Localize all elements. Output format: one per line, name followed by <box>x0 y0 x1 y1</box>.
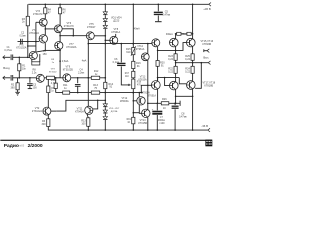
svg-text:КТ818Б: КТ818Б <box>204 85 213 88</box>
svg-text:2,2мк: 2,2мк <box>78 72 85 75</box>
transistor VT16 <box>187 38 196 47</box>
wire VT5 emitter <box>88 40 90 107</box>
svg-text:КТ361Г: КТ361Г <box>87 26 96 29</box>
svg-text:КТ3107К: КТ3107К <box>33 13 43 16</box>
caption separator <box>0 140 212 141</box>
resistor R4 <box>44 8 47 14</box>
label R6 <box>62 9 66 15</box>
label current 4mA <box>82 60 87 63</box>
wire to VT5 base <box>60 35 86 37</box>
capacitor C6 <box>117 63 125 65</box>
label VT14 <box>138 119 147 125</box>
label R25 <box>185 55 190 61</box>
wire bias line y112 <box>133 112 139 114</box>
svg-text:КТ601А: КТ601А <box>148 95 157 98</box>
wire VT3-VT6 link <box>45 28 54 30</box>
svg-text:4мА: 4мА <box>82 60 87 63</box>
svg-text:×100: ×100 <box>159 122 165 125</box>
transistor VT11a <box>85 106 93 114</box>
svg-text:КТ3102: КТ3102 <box>49 72 57 74</box>
wire line y103 end bar <box>179 101 181 106</box>
svg-text:КП903А: КП903А <box>120 100 129 103</box>
svg-text:0,5мк: 0,5мк <box>19 34 26 37</box>
transistor VT6 <box>54 25 62 33</box>
resistor R20 <box>156 61 159 67</box>
wire base bus x35.6 <box>28 22 36 52</box>
wire R16-R17 <box>132 69 134 72</box>
svg-text:Вход: Вход <box>3 66 10 70</box>
svg-text:R18: R18 <box>137 82 142 84</box>
label C8 <box>179 113 188 119</box>
wire R6 top <box>59 4 61 8</box>
label R24 <box>185 67 190 73</box>
transistor VT10 <box>152 39 160 47</box>
svg-text:КТ961А: КТ961А <box>111 31 120 34</box>
wire drive line y77.3 <box>158 77 180 79</box>
label VT13 <box>138 77 147 82</box>
wire R10 col <box>55 78 57 93</box>
svg-text:0,47мк: 0,47мк <box>179 116 188 119</box>
wire left drop x27.5 <box>27 4 29 58</box>
wire right bus x192 <box>192 4 194 38</box>
svg-text:Д223: Д223 <box>113 20 119 23</box>
svg-text:300: 300 <box>42 123 47 126</box>
label output <box>203 56 209 60</box>
wire C5 top <box>157 4 159 11</box>
svg-text:КТ3102А: КТ3102А <box>16 47 27 50</box>
label VT15 VT16 <box>200 40 213 46</box>
diode VD5 <box>103 104 107 107</box>
label R22 <box>168 67 173 73</box>
svg-text:0,47мк: 0,47мк <box>162 13 171 16</box>
label R26 <box>162 98 167 110</box>
label FU2 <box>180 33 187 36</box>
trimmer R18 <box>132 79 135 89</box>
diode VD3 <box>103 25 107 28</box>
wire R20 down <box>157 66 159 81</box>
resistor R11 <box>63 91 70 94</box>
wire VT4 loop right <box>39 54 41 62</box>
capacitor C1 <box>11 55 13 61</box>
resistor R23 <box>174 54 177 61</box>
label R11 <box>63 84 68 90</box>
resistor R3 <box>47 119 50 127</box>
svg-text:910: 910 <box>126 51 131 54</box>
wire fb bus <box>56 92 143 94</box>
svg-text:КТ315Б: КТ315Б <box>138 122 147 125</box>
resistor R17 <box>132 71 135 78</box>
wire R15-R16 <box>132 55 134 62</box>
transistor VT4b <box>36 74 44 82</box>
svg-text:300мА: 300мА <box>180 33 187 36</box>
wire VT4 loop left <box>31 59 33 62</box>
terminal +36V <box>209 3 211 7</box>
label -36V <box>201 124 208 128</box>
label VT6 <box>64 22 75 28</box>
label R7 <box>43 50 48 56</box>
resistor R19 <box>132 117 135 124</box>
diode VD1 <box>103 12 107 15</box>
wire trimmer arrow <box>129 84 131 86</box>
transistor VT4 <box>29 51 37 59</box>
label R12top <box>94 70 99 76</box>
diode VD6 <box>103 110 107 113</box>
diode VD7 <box>103 117 107 120</box>
label VT5 <box>87 23 96 29</box>
label R18 <box>137 82 142 87</box>
capacitor C1b <box>11 75 13 81</box>
transistor VT3 <box>39 18 47 26</box>
wire C5 bottom <box>155 16 162 22</box>
transistor VT18 <box>187 81 196 90</box>
transistor VT15 <box>170 38 179 47</box>
wire VD6-VD7 <box>104 114 106 117</box>
caption text <box>4 143 43 149</box>
svg-text:2/2000: 2/2000 <box>28 143 43 149</box>
wire R25 out <box>192 60 194 66</box>
wire VT11 emitter <box>147 60 149 104</box>
transistor VT5 <box>86 32 94 40</box>
wire VT2 step <box>56 100 105 112</box>
wire out drive y50 <box>158 49 176 51</box>
label R15 <box>126 48 131 54</box>
label VT9 <box>63 66 74 72</box>
wire VT18 base feed <box>179 78 186 84</box>
svg-text:КТ815А: КТ815А <box>142 92 151 95</box>
svg-text:+36 В: +36 В <box>203 7 211 11</box>
wire VT12 source <box>139 105 142 114</box>
terminal input bottom <box>3 76 11 80</box>
svg-text:100: 100 <box>33 86 38 89</box>
wire diode col top <box>104 4 106 12</box>
wire VT15 emitter S-bend <box>175 43 187 52</box>
wire VT3 emitter <box>45 26 47 35</box>
resistor R16 <box>132 61 135 68</box>
svg-text:VT13: VT13 <box>140 77 146 79</box>
svg-text:КТ3102А: КТ3102А <box>66 46 77 49</box>
svg-text:1к: 1к <box>52 62 54 64</box>
label R8 <box>32 69 37 75</box>
logo stamp <box>205 140 212 147</box>
terminal output pin2 <box>204 49 210 53</box>
label current 2.5mA <box>62 60 69 63</box>
wire R23 out <box>175 50 177 66</box>
wire VT11a emitter <box>87 114 88 118</box>
label R13b <box>81 120 86 126</box>
wire VD7 down <box>104 120 106 130</box>
svg-text:-36 В: -36 В <box>201 124 208 128</box>
svg-text:Вых.: Вых. <box>203 56 209 60</box>
wire R6 to VT6 <box>59 14 61 25</box>
wire VT15 collector <box>175 34 177 39</box>
wire line y103 <box>148 103 180 105</box>
terminal output <box>208 61 210 65</box>
label R13 <box>93 84 98 90</box>
wire VT14 emitter <box>147 117 149 130</box>
svg-text:КТ940А: КТ940А <box>75 111 84 114</box>
transistor VT17 <box>170 81 179 90</box>
label R9 <box>51 88 55 93</box>
label C6 <box>113 58 120 64</box>
label R1 <box>22 65 27 71</box>
wire VD1-VD2 <box>104 15 106 18</box>
wire bus y43.3 <box>88 43 152 45</box>
svg-text:VD5...VD7: VD5...VD7 <box>109 108 120 110</box>
wire R24 down <box>192 73 194 81</box>
svg-text:40мА: 40мА <box>134 28 140 31</box>
wire fuse line <box>175 33 193 35</box>
label C4 <box>78 69 85 75</box>
label KT601 <box>148 95 157 98</box>
resistor R2 <box>16 78 19 90</box>
wire VT11 collector <box>147 44 149 54</box>
label VT12 <box>120 97 129 103</box>
wire R9-VT2 <box>47 93 49 108</box>
svg-text:КТ3102А: КТ3102А <box>32 110 43 113</box>
ground R2 <box>15 90 20 95</box>
terminal -36V <box>208 128 210 132</box>
label VD5-VD7 <box>109 108 120 113</box>
label R2 <box>11 84 16 90</box>
resistor R5 inline <box>47 76 55 79</box>
label VT1 <box>16 44 27 50</box>
resistor R13b <box>87 118 90 130</box>
wire VT8 collector up <box>115 34 117 37</box>
label VT17 VT18 <box>202 82 215 88</box>
capacitor C7 <box>152 103 162 130</box>
wire VT11a base <box>93 100 98 109</box>
capacitor C5 <box>154 12 163 14</box>
label VT2 <box>32 107 43 113</box>
label C5 <box>162 11 171 17</box>
label C7 <box>158 116 165 125</box>
wire R19 top <box>132 113 134 118</box>
label R19 <box>127 119 132 124</box>
wire R22 down <box>175 73 177 81</box>
wire VT5 collector right <box>94 35 106 37</box>
resistor R25 <box>191 54 194 61</box>
resistor R3a <box>26 16 29 26</box>
capacitor C3 <box>27 78 33 89</box>
svg-text:150: 150 <box>43 53 48 56</box>
wire R17 down <box>133 89 135 114</box>
label R3 <box>42 120 47 126</box>
svg-text:0,47мк: 0,47мк <box>4 49 12 52</box>
svg-text:360: 360 <box>11 87 16 90</box>
transistor VT11 <box>141 53 149 61</box>
transistor VT12 mosfet <box>137 97 145 105</box>
resistor R10 <box>54 83 57 88</box>
transistor VT9 <box>63 74 71 82</box>
wire line y77.5 mid <box>44 77 63 79</box>
transistor VT13 <box>151 81 160 90</box>
transistor VT14 <box>142 109 150 117</box>
svg-text:КТ815А: КТ815А <box>138 78 147 81</box>
wire -36V bottom rail <box>48 127 208 131</box>
wire R19 down <box>132 124 134 130</box>
svg-text:0,22: 0,22 <box>185 70 190 73</box>
wire emitter tie y96 <box>175 95 193 97</box>
wire C6 bottom <box>121 66 129 85</box>
wire VD3 down <box>105 29 107 78</box>
wire VT16 emitter <box>192 47 194 54</box>
resistor R1 <box>18 57 21 78</box>
label VT13b <box>142 92 151 95</box>
label VT4 <box>29 29 39 35</box>
resistor R9 <box>47 86 50 93</box>
svg-text:КТ3102Б: КТ3102Б <box>63 69 74 72</box>
wire VD5 top <box>105 93 107 104</box>
label C7 plus <box>152 109 154 112</box>
wire zobel drop <box>195 63 201 89</box>
wire VT13 collector <box>157 78 159 82</box>
capacitor C2 <box>21 39 23 45</box>
node bottom rail junctions <box>88 129 194 131</box>
svg-text:0,1мк: 0,1мк <box>113 61 120 64</box>
wire VT6 collector down <box>59 33 61 42</box>
wire input line y57 <box>13 57 30 59</box>
svg-text:300мА: 300мА <box>166 33 173 36</box>
resistor R26 <box>161 102 169 105</box>
transistor VT7 <box>55 42 63 50</box>
label R3a <box>22 18 26 24</box>
transistor VT8 <box>110 36 118 44</box>
wire VD2-VD3 <box>104 22 106 25</box>
diode VD2 <box>103 19 107 22</box>
label C2 <box>19 32 26 38</box>
wire R15 top <box>133 4 135 47</box>
wire VT13 base feed <box>141 85 152 92</box>
wire output line <box>176 62 209 64</box>
resistor R24 <box>191 66 194 73</box>
wire VT17 base feed <box>165 78 170 86</box>
svg-text:0,22: 0,22 <box>168 58 173 61</box>
label R16 <box>136 62 141 68</box>
wire VT1 base line <box>18 41 40 43</box>
fuse FU1 <box>177 32 181 35</box>
wire C6 top <box>120 44 122 63</box>
resistor R8 <box>32 62 40 65</box>
wire VT2 emitter <box>47 115 49 119</box>
svg-text:КТ819Б: КТ819Б <box>202 43 211 46</box>
svg-text:КТ3107К: КТ3107К <box>64 25 75 28</box>
label R14 <box>109 83 114 89</box>
fuse FU2 <box>187 32 191 35</box>
label VD1-VD4 <box>111 17 122 23</box>
wire VT12 gate <box>133 100 136 102</box>
transistor VT2 <box>43 107 51 115</box>
svg-text:2,5мА: 2,5мА <box>62 60 69 63</box>
svg-text:0,22: 0,22 <box>168 70 173 73</box>
wire lower emitters <box>175 90 177 104</box>
label current 40mA <box>134 28 140 31</box>
wire VT2 base right <box>51 110 56 112</box>
resistor R6 <box>59 8 62 14</box>
capacitor C8 <box>172 103 179 130</box>
wire VT6 right bend <box>62 29 73 36</box>
svg-text:Радио: Радио <box>4 143 19 149</box>
label VT3 <box>33 10 43 16</box>
svg-text:КТ3102А: КТ3102А <box>29 32 39 35</box>
wire VT12 drain <box>139 92 141 97</box>
label VT10 <box>136 45 145 51</box>
svg-text:R26: R26 <box>162 98 167 101</box>
label VT8 <box>111 28 120 34</box>
svg-text:0,22: 0,22 <box>185 58 190 61</box>
wire VT18 emitter <box>192 89 194 130</box>
resistor R14 <box>104 78 107 93</box>
label C1 <box>4 46 12 52</box>
svg-text:100: 100 <box>81 123 86 126</box>
wire VD5-VD6 <box>104 107 106 110</box>
svg-text:№05: №05 <box>19 144 25 148</box>
svg-text:R17: R17 <box>125 73 130 75</box>
wire VT13 emitter <box>157 89 159 104</box>
label input <box>3 66 10 70</box>
label VT11a <box>75 108 84 114</box>
wire emitter bus y50 <box>37 50 61 52</box>
label R23 <box>168 55 173 61</box>
wire R4 top <box>44 4 46 8</box>
wire VT7 leads <box>59 50 61 78</box>
wire R9 top <box>47 79 49 86</box>
terminal input top <box>3 56 11 60</box>
svg-text:Д223Б: Д223Б <box>111 111 118 113</box>
node top rail junctions <box>45 4 194 6</box>
wire input line y77.5 <box>13 77 36 79</box>
wire VT1 emitter <box>45 43 47 51</box>
resistor R12 <box>91 76 99 79</box>
wire R17-R18 <box>132 78 134 79</box>
resistor R22 <box>174 66 177 73</box>
wire VT10 emitter <box>157 47 159 61</box>
label +36V <box>203 7 211 11</box>
wire VT3 collector <box>44 14 46 19</box>
label R10 <box>51 79 56 85</box>
label R4 <box>48 9 52 15</box>
svg-text:R19: R19 <box>127 119 132 121</box>
label VT7 <box>66 43 77 49</box>
svg-text:КТ961А: КТ961А <box>136 48 145 51</box>
resistor R13 <box>91 91 99 94</box>
label FU1 <box>166 33 173 36</box>
transistor VT1 <box>39 35 47 43</box>
label C3 <box>33 83 38 89</box>
wire +36V top rail <box>28 3 209 5</box>
wire line y77.5 right <box>71 77 106 79</box>
capacitor C4 <box>75 78 81 93</box>
wire VT3 base stub <box>36 21 40 23</box>
label R20 <box>160 62 165 68</box>
resistor R15 <box>131 46 136 56</box>
wire VT14 collector <box>147 103 149 109</box>
wire VT8 base <box>105 39 109 41</box>
label aux x52 <box>49 59 57 73</box>
label R17 <box>125 73 130 78</box>
